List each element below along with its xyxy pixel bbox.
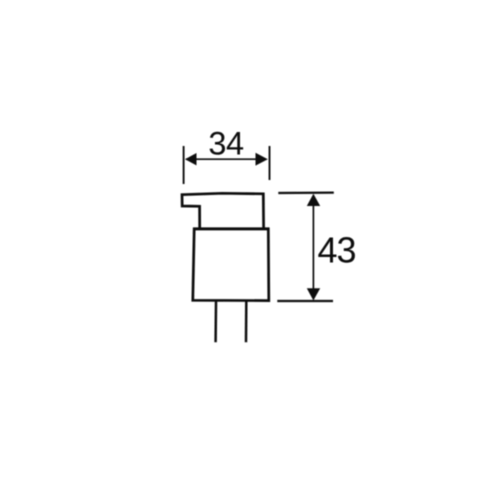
component cap outline [182, 193, 264, 228]
pin right [245, 302, 248, 343]
svg-text:43: 43 [318, 230, 356, 271]
extension line left of 34 [183, 146, 185, 184]
extension line top of 43 [278, 192, 334, 195]
pin left [214, 302, 217, 343]
extension line right of 34 [269, 146, 271, 180]
arrowhead right [256, 153, 268, 166]
component body [193, 229, 269, 301]
dimension line 43 [312, 197, 314, 297]
body top edge [193, 227, 270, 230]
arrowhead up [307, 194, 320, 206]
dimension line 34 [186, 158, 266, 160]
svg-text:34: 34 [208, 126, 244, 162]
arrowhead left [185, 153, 197, 165]
extension line bottom of 43 [277, 300, 333, 302]
arrowhead down [307, 288, 320, 300]
